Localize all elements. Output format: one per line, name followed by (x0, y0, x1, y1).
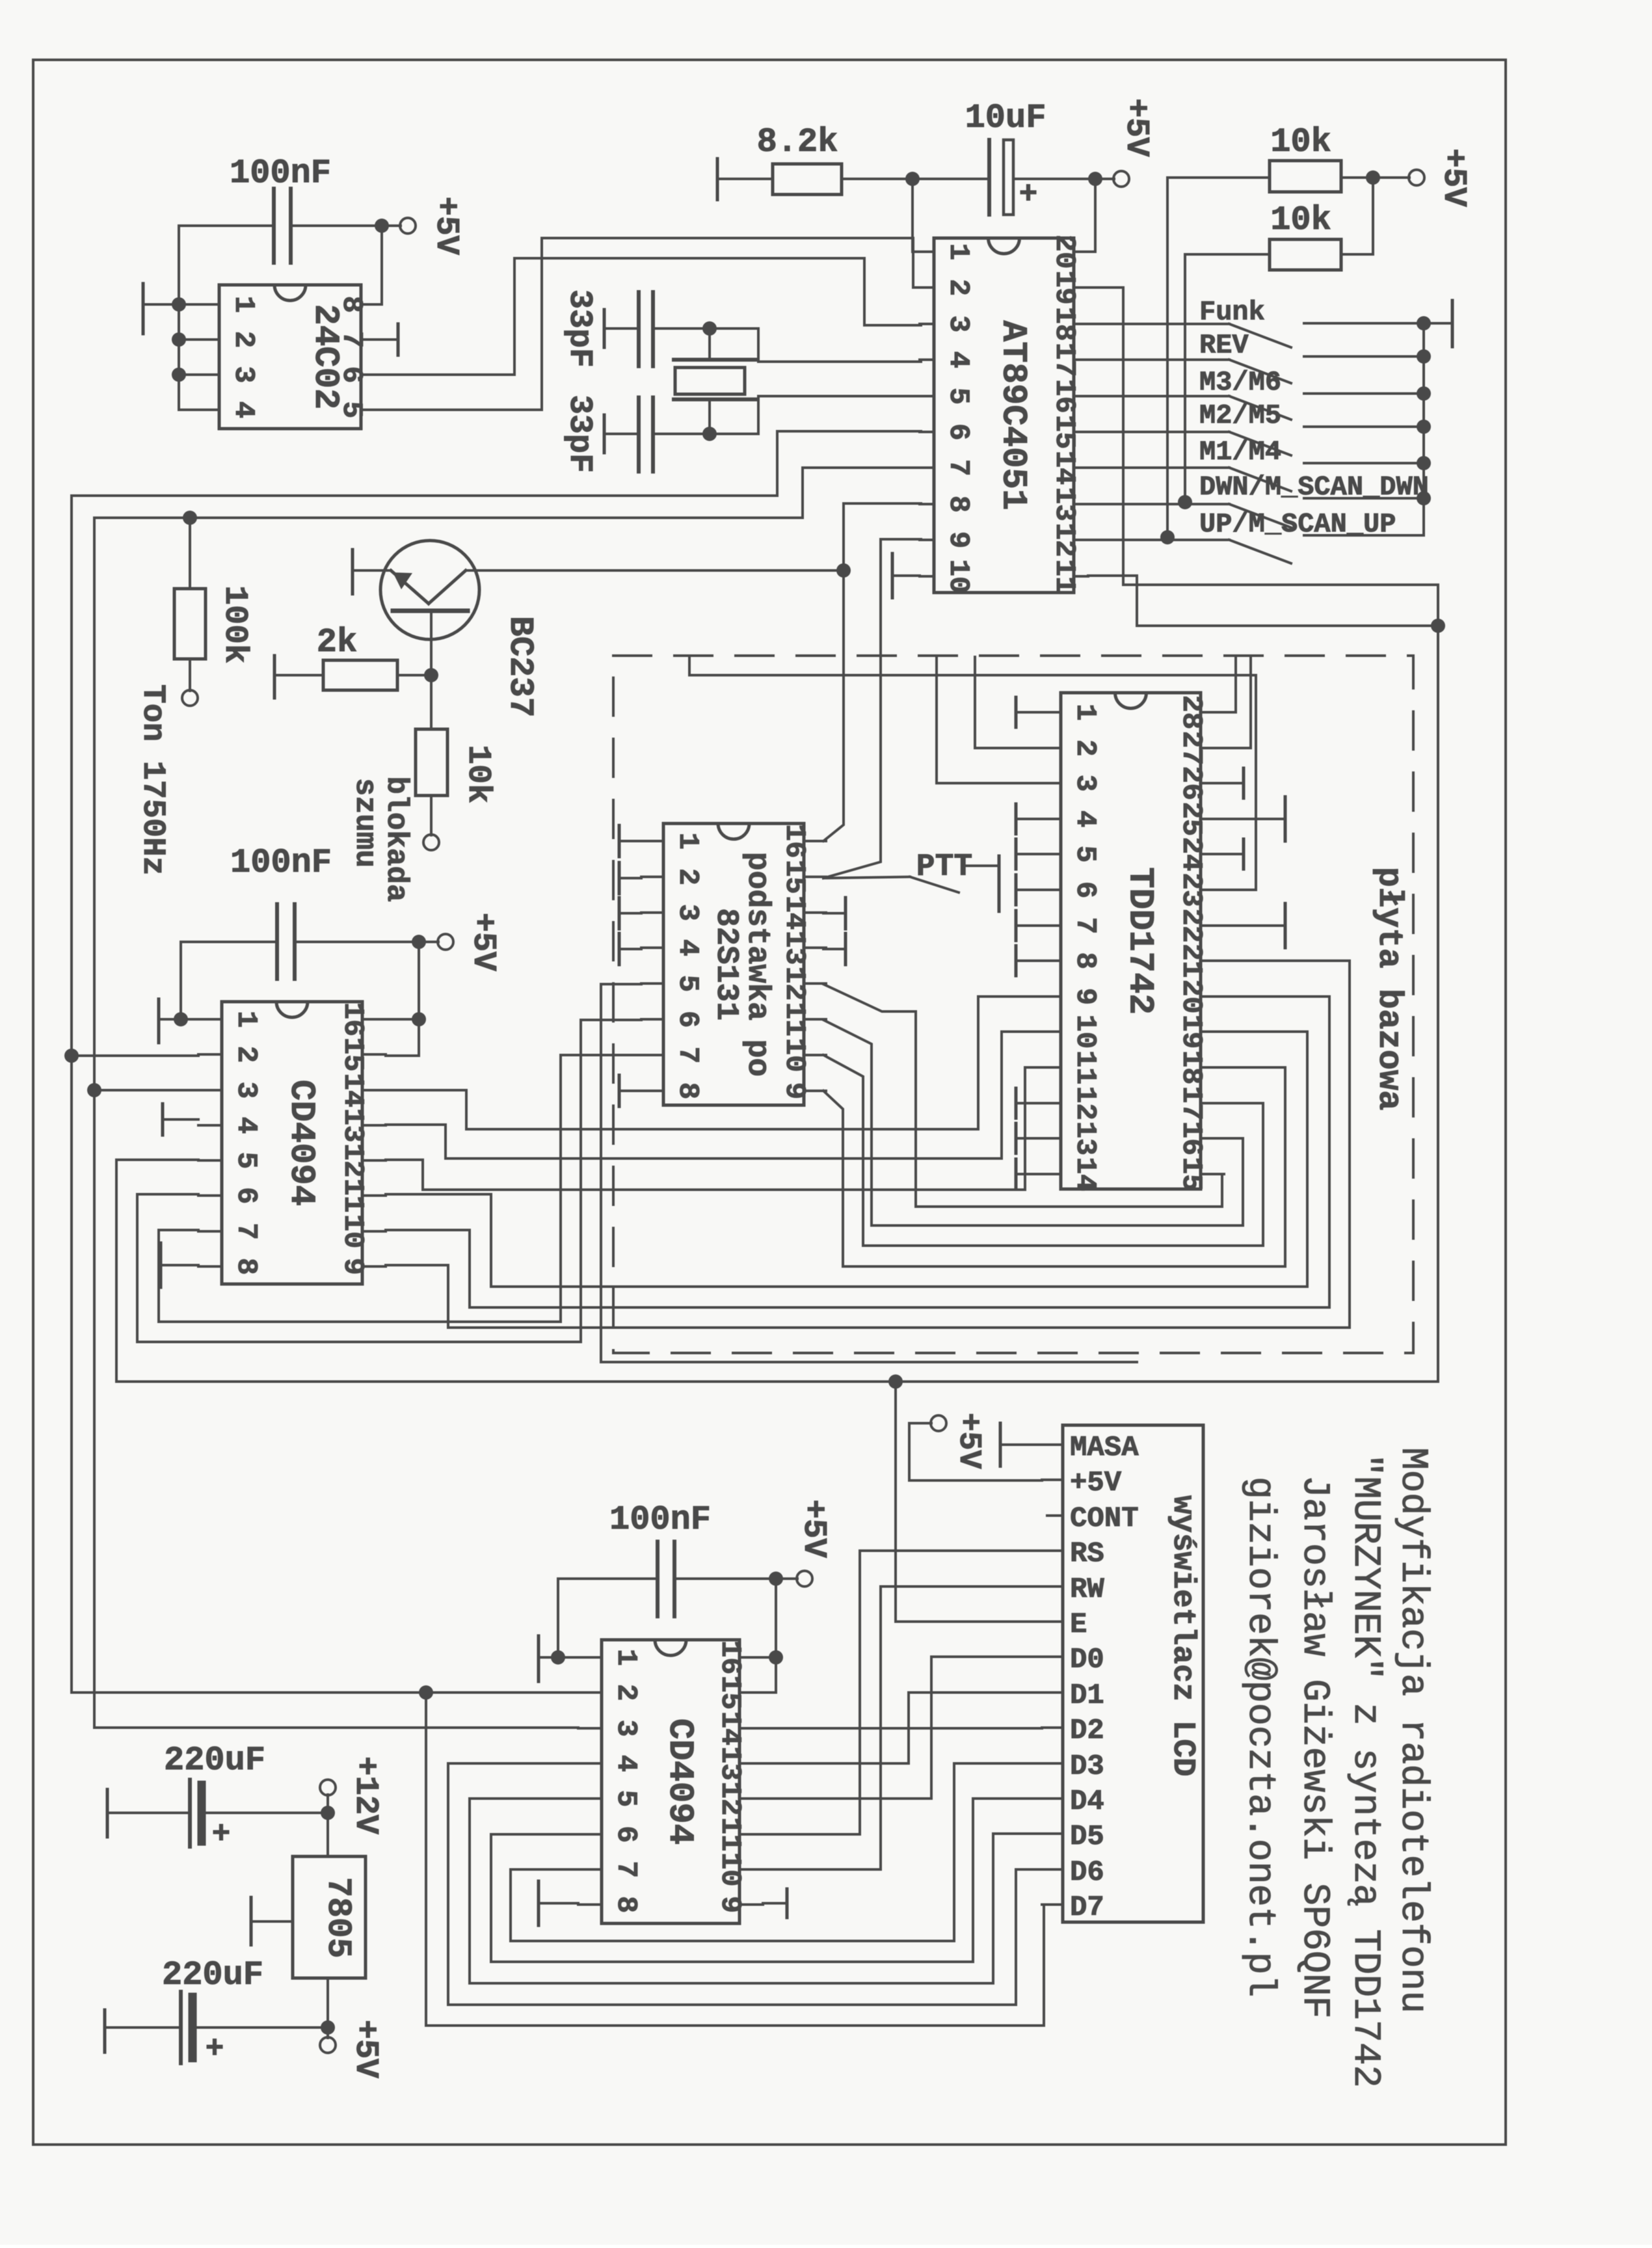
svg-text:11: 11 (336, 1179, 369, 1213)
ground at CD4094-1 pin8 (161, 1243, 198, 1287)
svg-text:Funk: Funk (1199, 297, 1265, 328)
wire 82S131 pin5 bus (601, 984, 1137, 1362)
wire AT pin9 to 82S131 pin15 (823, 539, 921, 878)
svg-text:24C02: 24C02 (305, 304, 345, 409)
svg-text:2: 2 (942, 279, 974, 296)
svg-text:3: 3 (609, 1720, 642, 1737)
node +5V (AT supply) (1088, 171, 1129, 187)
svg-text:9: 9 (713, 1896, 746, 1913)
82S131 pin1-4 stubs (618, 825, 621, 857)
svg-text:12: 12 (713, 1782, 746, 1816)
capacitor 100nF (24C02) (179, 189, 382, 263)
ground at TDD pin25 (1224, 797, 1285, 841)
wire +5V node to AT pin20 (1088, 179, 1095, 252)
svg-text:CD4094: CD4094 (281, 1080, 321, 1206)
svg-text:RW: RW (1070, 1573, 1104, 1606)
svg-text:19: 19 (1048, 271, 1080, 305)
wire CD4094-1 pin14 to TDD pin9 (386, 997, 1037, 1129)
svg-text:D1: D1 (1070, 1679, 1104, 1712)
svg-text:15: 15 (336, 1037, 369, 1072)
svg-text:28: 28 (1175, 695, 1207, 730)
svg-text:RS: RS (1070, 1538, 1104, 1570)
svg-text:M1/M4: M1/M4 (1199, 436, 1281, 468)
wire 24C02 pin6 to AT89C4051 pin3 (382, 258, 921, 375)
svg-text:9: 9 (336, 1258, 369, 1275)
svg-text:23: 23 (1175, 873, 1207, 907)
wire TDD pin23 feed (689, 657, 1256, 890)
svg-text:13: 13 (1048, 487, 1080, 522)
svg-text:wyświetlacz LCD: wyświetlacz LCD (1165, 1495, 1200, 1776)
wire AT pin8 to 82S131 pin16 (823, 503, 921, 841)
capacitor 100nF (CD4094-1) (181, 904, 419, 1019)
regulator 7805 (293, 1813, 366, 1978)
capacitor 100nF (CD4094-2) (558, 1542, 776, 1657)
svg-text:10k: 10k (1270, 201, 1331, 239)
wire collector to 82S131 pin16 / AT pin8 (466, 569, 844, 572)
wire 7805 out (320, 1978, 336, 2053)
wire CD4094-1 pin5 to E bus (116, 1160, 896, 1382)
svg-text:4: 4 (942, 351, 974, 368)
ground at 24C02 pin1 (143, 284, 179, 334)
svg-text:27: 27 (1175, 731, 1207, 766)
svg-text:płyta bazowa: płyta bazowa (1370, 867, 1408, 1110)
svg-text:+5V: +5V (1117, 98, 1154, 157)
svg-text:AT89C4051: AT89C4051 (993, 321, 1033, 511)
svg-text:D6: D6 (1070, 1856, 1104, 1889)
svg-text:6: 6 (942, 423, 974, 440)
svg-text:8: 8 (230, 1258, 262, 1275)
svg-text:giziorek@poczta.onet.pl: giziorek@poczta.onet.pl (1238, 1477, 1281, 1998)
svg-text:M2/M5: M2/M5 (1199, 400, 1281, 431)
svg-text:12: 12 (1069, 1086, 1101, 1121)
svg-text:+: + (1019, 178, 1038, 213)
svg-text:2: 2 (671, 868, 704, 885)
wire 24C02 pins 1-4 common (172, 226, 198, 410)
svg-text:+5V: +5V (1070, 1467, 1122, 1499)
wire CD4094-1 pin13 to TDD pin10 (386, 1032, 1037, 1158)
svg-text:6: 6 (1069, 881, 1101, 898)
switch M2/M5 (1088, 427, 1424, 455)
wire TDD pin3 riser (937, 657, 1037, 783)
svg-text:20: 20 (1048, 235, 1080, 269)
svg-text:21: 21 (1175, 944, 1207, 978)
svg-text:6: 6 (230, 1187, 262, 1204)
capacitor 10uF electrolytic (905, 140, 1095, 215)
svg-text:15: 15 (1175, 1157, 1207, 1192)
svg-text:8.2k: 8.2k (757, 123, 838, 161)
svg-text:2: 2 (1069, 740, 1101, 756)
svg-text:+5V: +5V (347, 2020, 384, 2078)
ground at TDD pin22 (1224, 903, 1285, 948)
wire CD4094-1 pin7 to 82S131 pin7 (159, 1055, 641, 1322)
svg-text:100nF: 100nF (230, 844, 332, 882)
svg-text:3: 3 (942, 315, 974, 332)
svg-text:+12V: +12V (347, 1756, 384, 1834)
svg-text:12: 12 (778, 967, 810, 1001)
svg-text:9: 9 (1069, 988, 1101, 1005)
svg-text:+: + (212, 1817, 231, 1853)
svg-text:19: 19 (1175, 1015, 1207, 1049)
svg-text:3: 3 (230, 1082, 262, 1099)
node +5V (CD4094-2) (769, 1571, 812, 1586)
wire CD4094-2 pin5 to LCD D5 (470, 1799, 1042, 1983)
svg-text:CD4094: CD4094 (659, 1719, 699, 1845)
IC CD4094 (second shift register) (602, 1640, 739, 1923)
IC TDD1742 synthesizer (1061, 693, 1201, 1189)
wire CD4094-1 pin10 to TDD pin20 (386, 997, 1329, 1307)
resistor 10k (blokada szumu) (416, 675, 447, 835)
wire +5V to CD4094-2 pins 16,15 (763, 1579, 783, 1693)
svg-text:10: 10 (778, 1038, 810, 1073)
svg-text:9: 9 (778, 1082, 810, 1099)
svg-text:8: 8 (942, 496, 974, 513)
wire 10uF node to AT pin1 (913, 179, 921, 252)
svg-text:12: 12 (1048, 523, 1080, 557)
svg-text:14: 14 (1069, 1157, 1101, 1192)
node +5V (CD4094-1) (412, 934, 453, 950)
svg-text:DWN/M_SCAN_DWN: DWN/M_SCAN_DWN (1199, 472, 1429, 503)
svg-text:3: 3 (1069, 775, 1101, 792)
wire AT pin11 to LCD E (896, 576, 1438, 1622)
svg-text:podstawka po: podstawka po (739, 852, 775, 1077)
svg-text:10: 10 (942, 559, 974, 594)
svg-text:82S131: 82S131 (708, 908, 743, 1021)
svg-text:16: 16 (1175, 1121, 1207, 1156)
switch common bus to ground (1417, 301, 1452, 535)
svg-text:7: 7 (609, 1861, 642, 1878)
svg-text:D4: D4 (1070, 1786, 1104, 1818)
IC CD4094 (first shift register) (222, 1002, 362, 1284)
terminal Ton 1750Hz (182, 690, 198, 706)
svg-text:5: 5 (671, 975, 704, 992)
svg-text:1: 1 (1069, 704, 1101, 721)
svg-text:16: 16 (336, 1002, 369, 1037)
svg-text:100nF: 100nF (609, 1501, 711, 1539)
svg-text:10: 10 (336, 1214, 369, 1249)
svg-text:15: 15 (713, 1676, 746, 1710)
svg-text:8: 8 (609, 1896, 642, 1913)
82S131 pin14,13 stubs (844, 898, 847, 929)
IC 24C02 EEPROM (219, 285, 361, 429)
svg-text:5: 5 (609, 1790, 642, 1807)
svg-text:UP/M_SCAN_UP: UP/M_SCAN_UP (1199, 509, 1396, 540)
wire CD4094-2 pin6 to LCD D4 (491, 1799, 1042, 1962)
82S131 pin8 stub (618, 1075, 621, 1106)
capacitor 33pF (top) (604, 292, 710, 366)
svg-text:10k: 10k (459, 745, 496, 803)
wire TDD pin2 riser (975, 657, 1037, 748)
svg-text:11: 11 (713, 1817, 746, 1852)
svg-text:11: 11 (778, 1002, 810, 1037)
ground at CD4094-1 pin1 (159, 999, 198, 1043)
wire 82S131 pin10 to TDD pin17 (823, 1055, 1263, 1246)
wire CD4094-1 pin11 to TDD pin19 (386, 1032, 1307, 1287)
ground at CD4094-2 pin8 (539, 1881, 578, 1925)
svg-text:100k: 100k (216, 585, 253, 663)
node +5V (pull-ups) (1366, 170, 1424, 185)
ground at AT pin10 (892, 554, 920, 598)
svg-text:33pF: 33pF (561, 395, 598, 473)
wire TDD pin28 riser (1224, 657, 1236, 712)
svg-text:D5: D5 (1070, 1821, 1104, 1853)
wire 24C02 pin5 to AT89C4051 pin2 (382, 238, 921, 410)
wire CD4094-2 pin7 to LCD D3 (511, 1763, 1042, 1941)
svg-text:REV: REV (1199, 330, 1249, 361)
crystal (674, 328, 755, 434)
svg-text:+5V: +5V (951, 1413, 986, 1469)
svg-text:15: 15 (778, 860, 810, 894)
svg-text:11: 11 (1069, 1050, 1101, 1085)
svg-text:100nF: 100nF (230, 154, 331, 193)
capacitor 220uF (output) (105, 1992, 328, 2067)
svg-text:+5V: +5V (1435, 148, 1472, 207)
svg-text:Modyfikacja radiotelefonu: Modyfikacja radiotelefonu (1391, 1447, 1433, 2013)
svg-text:7: 7 (1069, 917, 1101, 934)
svg-text:18: 18 (1048, 307, 1080, 341)
svg-text:14: 14 (1048, 451, 1080, 485)
svg-text:1: 1 (671, 833, 704, 850)
svg-text:6: 6 (671, 1011, 704, 1028)
svg-text:17: 17 (1175, 1086, 1207, 1121)
svg-text:10: 10 (1069, 1015, 1101, 1049)
svg-text:5: 5 (942, 388, 974, 405)
svg-text:D3: D3 (1070, 1750, 1104, 1783)
svg-text:220uF: 220uF (164, 1741, 265, 1780)
svg-text:3: 3 (671, 904, 704, 921)
svg-text:5: 5 (1069, 846, 1101, 863)
wire CD4094-1 pin6 to 82S131 pin6 (137, 1020, 641, 1342)
svg-text:2: 2 (609, 1684, 642, 1701)
switch REV (1088, 356, 1424, 383)
CD4094-1 pin4 stub (161, 1104, 165, 1135)
wire CD4094-2 pin4 to LCD D6 (448, 1763, 1042, 2005)
svg-text:Ton 1750Hz: Ton 1750Hz (135, 684, 171, 876)
svg-text:3: 3 (227, 366, 260, 383)
svg-text:10: 10 (713, 1853, 746, 1887)
svg-text:PTT: PTT (916, 850, 972, 885)
svg-text:17: 17 (1048, 343, 1080, 377)
wire 82S131 pin9 to TDD pin18 (823, 1067, 1285, 1266)
svg-text:Jarosław Giżewski SP6QNF: Jarosław Giżewski SP6QNF (1293, 1475, 1335, 2018)
svg-text:12: 12 (336, 1144, 369, 1178)
node base 2k/10k (424, 668, 438, 682)
svg-text:16: 16 (778, 824, 810, 859)
wire CD4094-2 pin14 to LCD D2 (763, 1727, 1042, 1730)
svg-text:25: 25 (1175, 802, 1207, 836)
svg-text:BC237: BC237 (501, 616, 539, 717)
wire CD4094-1 pin12 to TDD pin11 (386, 1067, 1037, 1190)
svg-text:10uF: 10uF (965, 99, 1046, 137)
svg-text:13: 13 (778, 931, 810, 965)
wire crystal top to AT pin4 (710, 328, 921, 362)
svg-text:4: 4 (671, 939, 704, 956)
capacitor 33pF (bottom) (604, 397, 710, 472)
resistor 10k (lower pull-up) (1185, 178, 1373, 502)
svg-text:"MURZYNEK" z syntezą TDD1742: "MURZYNEK" z syntezą TDD1742 (1344, 1454, 1386, 2088)
wire AT pin6 data bus to CD4094 pins 2 (72, 431, 921, 1693)
svg-text:D0: D0 (1070, 1644, 1104, 1676)
svg-text:20: 20 (1175, 980, 1207, 1014)
ground at 7805 (251, 1897, 293, 1945)
svg-text:+5V: +5V (427, 196, 464, 255)
svg-text:22: 22 (1175, 909, 1207, 943)
svg-text:14: 14 (778, 896, 810, 930)
svg-text:D7: D7 (1070, 1892, 1104, 1924)
svg-text:16: 16 (1048, 379, 1080, 414)
svg-text:13: 13 (713, 1746, 746, 1781)
svg-text:2: 2 (227, 331, 260, 348)
wire CD4094-1 pin2 tap (72, 1054, 198, 1057)
connector wyswietlacz LCD (1042, 1425, 1203, 1924)
svg-text:+5V: +5V (464, 913, 501, 971)
svg-text:24: 24 (1175, 837, 1207, 872)
svg-text:7805: 7805 (319, 1877, 357, 1959)
svg-text:13: 13 (1069, 1121, 1101, 1156)
switch M3/M6 (1088, 394, 1424, 420)
svg-text:26: 26 (1175, 766, 1207, 801)
ground at LCD MASA (1000, 1423, 1042, 1466)
terminal +5V (LCD) (909, 1415, 1042, 1480)
svg-text:6: 6 (609, 1826, 642, 1843)
svg-text:M3/M6: M3/M6 (1199, 367, 1281, 398)
TDD1742 unconnected pin stubs (1015, 697, 1018, 727)
resistor 10k (upper pull-up) (1167, 161, 1373, 537)
switch Funk (1088, 323, 1424, 347)
plyta bazowa dashed boundary (613, 656, 1413, 1353)
svg-text:MASA: MASA (1070, 1432, 1139, 1464)
svg-text:1: 1 (227, 296, 260, 313)
switch DWN/M_SCAN_DWN (1088, 495, 1424, 528)
svg-text:33pF: 33pF (561, 289, 598, 368)
svg-text:8: 8 (1069, 952, 1101, 969)
svg-text:2: 2 (230, 1046, 262, 1063)
svg-text:2k: 2k (317, 623, 357, 662)
svg-text:18: 18 (1175, 1050, 1207, 1085)
svg-text:szumu: szumu (348, 778, 382, 868)
ground at CD4094-2 pin1 (539, 1636, 578, 1681)
switch PTT (823, 856, 999, 911)
svg-text:CONT: CONT (1070, 1503, 1139, 1535)
svg-text:16: 16 (713, 1640, 746, 1675)
wire CD4094-2 pin11 to LCD RS (763, 1551, 1042, 1834)
wire +5V to CD4094-1 pins 16,15 (386, 942, 426, 1056)
svg-text:14: 14 (713, 1711, 746, 1746)
wire AT pin7 clock bus to CD4094 pins 3 (94, 468, 921, 1728)
wire CD4094-2 pin9 stub (786, 1889, 789, 1918)
wire 82S131 pin11 to TDD pin16 (823, 1020, 1243, 1225)
svg-text:7: 7 (942, 459, 974, 476)
svg-text:1: 1 (942, 243, 974, 260)
svg-text:10k: 10k (1270, 123, 1331, 161)
svg-text:15: 15 (1048, 415, 1080, 449)
svg-text:8: 8 (671, 1082, 704, 1099)
capacitor 220uF (input) (107, 1780, 328, 1853)
node +5V (24C02) (375, 218, 416, 234)
svg-text:4: 4 (609, 1755, 642, 1772)
svg-text:7: 7 (230, 1223, 262, 1240)
switch M1/M4 (1088, 463, 1424, 491)
svg-text:1: 1 (230, 1011, 262, 1028)
svg-text:14: 14 (336, 1073, 369, 1108)
switch UP/M_SCAN_UP (1088, 530, 1424, 563)
wire CD4094-2 pin12 to LCD D0 (763, 1657, 1042, 1799)
wire crystal bottom to AT pin5 (710, 396, 921, 434)
svg-text:TDD1742: TDD1742 (1120, 867, 1160, 1015)
wire AT pin19 down right side (1088, 288, 1438, 626)
svg-text:D2: D2 (1070, 1715, 1104, 1747)
node crystal bottom (702, 427, 717, 441)
wire 24C02 pin8 to +5V (380, 226, 383, 304)
wire serial bus to LCD D7 (426, 1693, 1044, 2026)
transistor BC237 (353, 541, 479, 675)
svg-text:1: 1 (609, 1649, 642, 1666)
svg-text:blokada: blokada (379, 776, 413, 902)
wire CD4094-2 pin13 to LCD D1 (763, 1693, 1042, 1763)
svg-text:13: 13 (336, 1108, 369, 1143)
svg-text:E: E (1070, 1609, 1087, 1641)
wire CD4094-1 pin3 tap (94, 1089, 198, 1091)
svg-text:+5V: +5V (795, 1499, 832, 1558)
IC 82S131 PROM socket (podstawka po 82S131) (663, 823, 804, 1105)
wire CD4094-1 pin9 to TDD pin21 (386, 961, 1350, 1328)
wire 82S131 pin12 to TDD pin15 (823, 984, 1222, 1207)
terminal +12V (320, 1780, 336, 1820)
resistor 8.2k (717, 159, 913, 200)
IC AT89C4051 microcontroller (934, 238, 1074, 593)
resistor 2k (274, 656, 431, 698)
svg-text:4: 4 (230, 1117, 262, 1134)
svg-text:9: 9 (942, 531, 974, 548)
wire CD4094-2 pin10 to LCD RW (763, 1586, 1042, 1869)
svg-text:4: 4 (227, 401, 260, 418)
24C02 pin7 stub (382, 338, 398, 341)
svg-text:220uF: 220uF (162, 1956, 263, 1994)
wire TDD pin27 riser (1224, 657, 1251, 748)
svg-text:11: 11 (1048, 559, 1080, 594)
svg-text:4: 4 (1069, 810, 1101, 827)
resistor 100k (174, 518, 206, 691)
svg-text:5: 5 (230, 1152, 262, 1169)
crystal Q 33pF node top (702, 321, 717, 336)
svg-text:7: 7 (671, 1047, 704, 1064)
svg-text:+: + (206, 2032, 224, 2067)
